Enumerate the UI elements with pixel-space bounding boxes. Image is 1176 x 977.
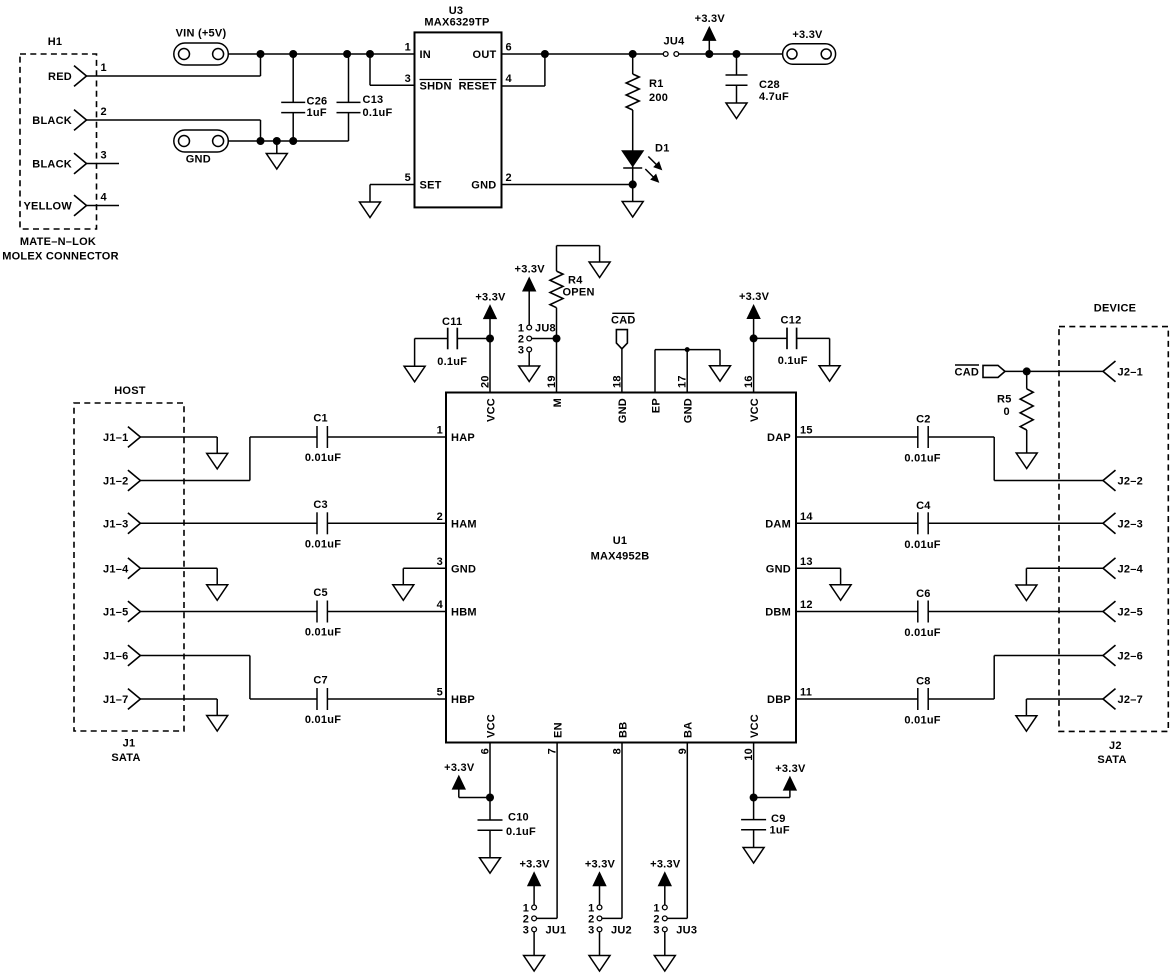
wire SHDN link bbox=[369, 54, 371, 85]
svg-text:SHDN: SHDN bbox=[420, 81, 452, 93]
wire H1 pin2 to GND rail bbox=[87, 119, 261, 121]
svg-text:C6: C6 bbox=[916, 588, 931, 600]
wire VCC6 to +3.3V arrow bbox=[459, 797, 490, 799]
svg-text:0.01uF: 0.01uF bbox=[904, 539, 940, 551]
connector J2 dashed outline bbox=[1059, 327, 1168, 732]
svg-text:17: 17 bbox=[677, 375, 689, 388]
svg-text:H1: H1 bbox=[48, 36, 63, 48]
wire EP net bbox=[654, 350, 656, 393]
capacitor C9 1uF bbox=[741, 819, 766, 821]
svg-text:C1: C1 bbox=[313, 413, 328, 425]
jumper JU3 bbox=[662, 905, 667, 910]
resistor R1 200 bbox=[632, 54, 634, 74]
wire EP to ground bbox=[719, 350, 721, 366]
svg-text:1uF: 1uF bbox=[307, 107, 327, 119]
svg-text:12: 12 bbox=[800, 599, 813, 611]
ground JU1 bbox=[524, 956, 545, 972]
wire VCC pin20 bbox=[489, 339, 491, 393]
node +5V junction 1 bbox=[257, 50, 265, 58]
wire DBP link to J2-6 bbox=[928, 698, 994, 700]
connector J1 dashed outline bbox=[74, 403, 184, 731]
wire U1 GND3 to ground bbox=[403, 567, 446, 569]
svg-text:14: 14 bbox=[800, 511, 813, 523]
svg-text:4: 4 bbox=[101, 192, 108, 204]
wire JU2 pin wire bbox=[621, 743, 623, 919]
svg-text:J1–2: J1–2 bbox=[103, 476, 128, 488]
wire H1 pin1 to +5V rail bbox=[87, 75, 261, 77]
wire RESET link bbox=[544, 54, 546, 86]
wire JU3 pin1 to +3.3V bbox=[664, 885, 666, 905]
wire VCC pin6 bbox=[489, 743, 491, 821]
svg-text:+3.3V: +3.3V bbox=[775, 763, 806, 775]
svg-text:SET: SET bbox=[420, 180, 442, 192]
H1 pin 2 BLACK bbox=[74, 110, 87, 131]
svg-text:+3.3V: +3.3V bbox=[739, 291, 770, 303]
svg-text:GND: GND bbox=[766, 564, 791, 576]
J1 pin J1-2 bbox=[128, 470, 140, 491]
wire H1 pin4 stub bbox=[87, 205, 120, 207]
capacitor C10 0.1uF bbox=[478, 819, 503, 821]
capacitor C8 0.01uF bbox=[917, 688, 919, 710]
wire HAP row right bbox=[327, 436, 446, 438]
wire J1-6 link to HBP row bbox=[140, 655, 250, 657]
power +3.3V at JU1 bbox=[528, 873, 540, 886]
svg-text:0: 0 bbox=[1004, 406, 1010, 418]
svg-text:EP: EP bbox=[650, 398, 662, 413]
capacitor C11 0.1uF bbox=[415, 338, 448, 340]
svg-text:C3: C3 bbox=[313, 499, 328, 511]
svg-text:C12: C12 bbox=[781, 314, 802, 326]
wire JU8 pin2 to M bbox=[532, 338, 557, 340]
node VCC16 junction bbox=[750, 334, 758, 342]
capacitor C4 0.01uF bbox=[917, 512, 919, 534]
ground C10 bbox=[480, 858, 501, 874]
connector H1 dashed outline bbox=[20, 54, 97, 229]
J1 pin J1-1 bbox=[128, 427, 140, 448]
node +3.3V rail junction A bbox=[705, 50, 713, 58]
svg-text:2: 2 bbox=[437, 511, 443, 523]
svg-text:0.1uF: 0.1uF bbox=[778, 355, 808, 367]
ground U1 GND13 bbox=[830, 585, 851, 601]
wire JU8 pin3 to ground bbox=[528, 352, 530, 366]
svg-text:13: 13 bbox=[800, 556, 813, 568]
wire M pin19 bbox=[556, 308, 558, 393]
svg-text:+3.3V: +3.3V bbox=[585, 859, 616, 871]
svg-text:J2–4: J2–4 bbox=[1118, 563, 1144, 575]
svg-text:J2–2: J2–2 bbox=[1118, 476, 1143, 488]
svg-text:HAP: HAP bbox=[451, 432, 475, 444]
svg-text:J2–3: J2–3 bbox=[1118, 518, 1143, 530]
svg-text:MAX6329TP: MAX6329TP bbox=[424, 17, 489, 29]
wire CAD to pin18 bbox=[621, 349, 623, 393]
svg-text:J2–7: J2–7 bbox=[1118, 694, 1143, 706]
svg-text:2: 2 bbox=[101, 106, 107, 118]
svg-text:JU2: JU2 bbox=[611, 924, 632, 936]
svg-text:JU1: JU1 bbox=[546, 924, 567, 936]
svg-text:1: 1 bbox=[437, 425, 443, 437]
power +3.3V at VCC6 bbox=[453, 776, 465, 789]
test point VIN (+5V) bbox=[174, 43, 229, 65]
op-amp U3 MAX6329TP body bbox=[415, 32, 502, 207]
capacitor C28 4.7uF bbox=[736, 54, 738, 75]
ground J2-4 bbox=[1016, 585, 1037, 601]
test point +3.3V bbox=[783, 44, 836, 65]
svg-text:5: 5 bbox=[405, 172, 411, 184]
svg-text:DBP: DBP bbox=[767, 694, 791, 706]
wire DAP row left bbox=[796, 436, 918, 438]
svg-text:HOST: HOST bbox=[114, 385, 146, 397]
wire JU3 pin wire bbox=[686, 743, 688, 919]
capacitor C26 bbox=[292, 54, 294, 102]
test point GND bbox=[174, 130, 229, 152]
svg-text:VCC: VCC bbox=[749, 398, 761, 422]
svg-text:HAM: HAM bbox=[451, 519, 477, 531]
svg-text:6: 6 bbox=[506, 42, 512, 54]
power +3.3V at JU2 bbox=[594, 873, 606, 886]
wire JU8 pin1 to +3.3V bbox=[528, 290, 530, 325]
svg-text:VCC: VCC bbox=[749, 714, 761, 738]
svg-text:5: 5 bbox=[437, 687, 443, 699]
svg-text:R5: R5 bbox=[997, 394, 1012, 406]
svg-text:3: 3 bbox=[653, 924, 659, 936]
svg-text:CAD: CAD bbox=[955, 366, 980, 378]
ground GND bus bbox=[276, 141, 278, 154]
svg-text:0.1uF: 0.1uF bbox=[506, 826, 536, 838]
ground J2-7 bbox=[1016, 716, 1037, 732]
ground JU2 bbox=[589, 956, 610, 972]
svg-text:+3.3V: +3.3V bbox=[519, 859, 550, 871]
svg-text:+3.3V: +3.3V bbox=[475, 291, 506, 303]
svg-text:C26: C26 bbox=[307, 96, 328, 108]
svg-text:3: 3 bbox=[101, 150, 107, 162]
jumper JU2 bbox=[597, 905, 602, 910]
svg-text:+3.3V: +3.3V bbox=[444, 762, 475, 774]
svg-text:18: 18 bbox=[611, 375, 623, 388]
wire JU2 pin3 to ground bbox=[599, 932, 601, 956]
J2 pin J2-6 bbox=[1103, 645, 1116, 666]
svg-text:GND: GND bbox=[186, 154, 211, 166]
wire HAM row left bbox=[140, 522, 317, 524]
LED D1 bbox=[623, 151, 643, 166]
node U3 GND junction bbox=[629, 180, 637, 188]
svg-text:3: 3 bbox=[588, 924, 594, 936]
J2 pin J2-5 bbox=[1103, 601, 1116, 622]
resistor R5 0 bbox=[1026, 371, 1028, 388]
svg-text:C4: C4 bbox=[916, 500, 931, 512]
svg-text:R1: R1 bbox=[649, 78, 664, 90]
wire HBP row right bbox=[327, 698, 446, 700]
svg-text:+3.3V: +3.3V bbox=[515, 264, 546, 276]
svg-text:D1: D1 bbox=[655, 143, 670, 155]
node GND junction 2 bbox=[273, 137, 281, 145]
svg-text:JU8: JU8 bbox=[535, 323, 556, 335]
node OUT junction B bbox=[629, 50, 637, 58]
svg-text:20: 20 bbox=[480, 375, 492, 388]
wire J1-2 link to HAP row bbox=[140, 480, 250, 482]
svg-text:BB: BB bbox=[617, 722, 629, 738]
svg-text:CAD: CAD bbox=[611, 314, 636, 326]
signal tag CAD right bbox=[983, 365, 1005, 377]
ground R5 bbox=[1016, 453, 1037, 469]
wire DAP link to J2-2 bbox=[928, 436, 994, 438]
svg-text:J1–3: J1–3 bbox=[103, 518, 128, 530]
ground U1 GND3 bbox=[393, 585, 414, 601]
svg-text:0.01uF: 0.01uF bbox=[305, 538, 341, 550]
wire HAM row right bbox=[327, 522, 446, 524]
svg-text:BA: BA bbox=[683, 722, 695, 738]
svg-text:0.01uF: 0.01uF bbox=[305, 627, 341, 639]
svg-text:BLACK: BLACK bbox=[32, 115, 72, 127]
svg-text:YELLOW: YELLOW bbox=[23, 201, 72, 213]
H1 pin 4 YELLOW bbox=[74, 195, 87, 216]
node M junction bbox=[553, 335, 561, 343]
svg-text:3: 3 bbox=[518, 344, 524, 356]
power +3.3V at JU8 bbox=[523, 278, 535, 291]
svg-text:J1–7: J1–7 bbox=[103, 694, 128, 706]
wire JU4 to +3.3V rail bbox=[679, 53, 783, 55]
svg-text:0.1uF: 0.1uF bbox=[363, 107, 393, 119]
J1 pin J1-6 bbox=[128, 645, 140, 666]
wire J1-7 to ground bbox=[140, 698, 217, 700]
wire +5V bus bbox=[228, 53, 415, 55]
node VCC6 junction bbox=[486, 794, 494, 802]
node +5V junction 2 bbox=[289, 50, 297, 58]
wire VCC pin10 bbox=[753, 743, 755, 820]
ground SET bbox=[360, 202, 381, 218]
wire H1 pin3 stub bbox=[87, 163, 120, 165]
svg-text:VIN (+5V): VIN (+5V) bbox=[176, 27, 227, 39]
wire R4 top to ground bbox=[557, 245, 600, 247]
capacitor C12 0.1uF bbox=[754, 337, 787, 339]
svg-text:2: 2 bbox=[506, 172, 512, 184]
svg-text:4.7uF: 4.7uF bbox=[759, 91, 789, 103]
wire DBM row left bbox=[796, 611, 918, 613]
wire HAP row left bbox=[250, 436, 317, 438]
svg-text:0.01uF: 0.01uF bbox=[904, 627, 940, 639]
svg-text:VCC: VCC bbox=[485, 714, 497, 738]
J1 pin J1-7 bbox=[128, 689, 140, 710]
svg-text:J1: J1 bbox=[123, 738, 136, 750]
power +3.3V at VCC20 bbox=[484, 306, 496, 319]
wire U3 GND net bbox=[502, 184, 633, 186]
ground J1-4 bbox=[207, 585, 228, 601]
svg-text:HBM: HBM bbox=[451, 607, 477, 619]
svg-text:0.01uF: 0.01uF bbox=[904, 715, 940, 727]
svg-text:DAM: DAM bbox=[765, 519, 791, 531]
svg-text:19: 19 bbox=[546, 375, 558, 388]
power +3.3V at JU4 bbox=[703, 28, 715, 40]
svg-text:1: 1 bbox=[101, 62, 107, 74]
wire JU1 pin wire bbox=[556, 743, 558, 919]
H1 pin 1 RED bbox=[74, 66, 87, 87]
wire OUT net bbox=[502, 53, 664, 55]
wire JU1 pin3 to ground bbox=[533, 932, 535, 956]
ground J1-1 bbox=[207, 453, 228, 469]
wire J2-7 to ground bbox=[1026, 698, 1103, 700]
jumper JU4 bbox=[663, 52, 668, 57]
svg-text:SATA: SATA bbox=[1097, 754, 1126, 766]
wire DAM row left bbox=[796, 522, 918, 524]
wire DBM row right bbox=[928, 611, 1103, 613]
svg-text:HBP: HBP bbox=[451, 694, 475, 706]
svg-text:200: 200 bbox=[649, 92, 668, 104]
svg-text:IN: IN bbox=[420, 49, 432, 61]
ground EP bbox=[710, 366, 731, 382]
svg-text:R4: R4 bbox=[568, 275, 583, 287]
J2 pin J2-4 bbox=[1103, 558, 1116, 579]
capacitor C2 0.01uF bbox=[917, 426, 919, 448]
IC U1 MAX4952B body bbox=[446, 393, 796, 743]
svg-text:J2: J2 bbox=[1109, 740, 1122, 752]
wire C12 to ground bbox=[829, 338, 831, 365]
J1 pin J1-4 bbox=[128, 558, 140, 579]
wire DBP row left bbox=[796, 698, 918, 700]
node EP junction bbox=[685, 347, 690, 352]
svg-text:EN: EN bbox=[552, 722, 564, 738]
power +3.3V at JU3 bbox=[659, 873, 671, 886]
svg-text:MATE–N–LOK: MATE–N–LOK bbox=[20, 236, 96, 248]
ground JU3 bbox=[654, 956, 675, 972]
svg-text:16: 16 bbox=[743, 375, 755, 388]
node +3.3V rail junction B bbox=[733, 50, 741, 58]
wire HBP row left bbox=[250, 698, 317, 700]
svg-text:MAX4952B: MAX4952B bbox=[591, 551, 650, 563]
node CAD junction bbox=[1023, 367, 1031, 375]
svg-text:M: M bbox=[552, 398, 564, 407]
svg-text:J2–1: J2–1 bbox=[1118, 366, 1143, 378]
power +3.3V at VCC10 bbox=[784, 777, 796, 790]
capacitor C7 0.01uF bbox=[316, 688, 318, 710]
node VCC10 junction bbox=[750, 794, 758, 802]
jumper JU1 bbox=[532, 905, 537, 910]
wire JU2 pin1 to +3.3V bbox=[599, 885, 601, 905]
wire HBM row left bbox=[140, 611, 317, 613]
svg-text:C13: C13 bbox=[363, 94, 384, 106]
svg-text:U1: U1 bbox=[613, 535, 628, 547]
power +3.3V at VCC16 bbox=[748, 306, 760, 319]
wire CAD to J2-1 bbox=[1005, 370, 1103, 372]
svg-text:1: 1 bbox=[405, 42, 411, 54]
J1 pin J1-5 bbox=[128, 601, 140, 622]
jumper JU8 bbox=[527, 325, 532, 330]
svg-text:JU4: JU4 bbox=[664, 36, 686, 48]
svg-text:0.1uF: 0.1uF bbox=[437, 356, 467, 368]
wire VCC pin16 bbox=[753, 338, 755, 392]
J1 pin J1-3 bbox=[128, 513, 140, 534]
J2 pin J2-1 bbox=[1103, 361, 1116, 382]
svg-text:J2–6: J2–6 bbox=[1118, 651, 1143, 663]
svg-text:4: 4 bbox=[437, 599, 444, 611]
wire HBM row right bbox=[327, 611, 446, 613]
svg-text:C8: C8 bbox=[916, 676, 931, 688]
svg-text:0.01uF: 0.01uF bbox=[904, 453, 940, 465]
svg-text:U3: U3 bbox=[449, 5, 464, 17]
svg-text:GND: GND bbox=[617, 398, 629, 423]
wire GND bus bbox=[228, 140, 349, 142]
svg-text:4: 4 bbox=[506, 73, 513, 85]
wire GND pin17 bbox=[686, 350, 688, 393]
capacitor C6 0.01uF bbox=[917, 601, 919, 623]
ground JU8 bbox=[519, 366, 540, 382]
capacitor C5 0.01uF bbox=[316, 601, 318, 623]
svg-text:GND: GND bbox=[471, 180, 496, 192]
svg-text:C11: C11 bbox=[442, 316, 462, 328]
resistor R4 OPEN bbox=[550, 271, 563, 308]
capacitor C3 0.01uF bbox=[316, 512, 318, 534]
J2 pin J2-3 bbox=[1103, 513, 1116, 534]
ground C9 bbox=[743, 848, 764, 864]
ground R4 bbox=[589, 262, 610, 278]
capacitor C1 0.01uF bbox=[316, 426, 318, 448]
svg-text:OPEN: OPEN bbox=[563, 287, 595, 299]
capacitor C13 bbox=[348, 54, 350, 102]
svg-text:JU3: JU3 bbox=[676, 924, 697, 936]
svg-text:DBM: DBM bbox=[765, 607, 791, 619]
svg-text:BLACK: BLACK bbox=[32, 159, 72, 171]
wire J1-4 to ground bbox=[140, 567, 217, 569]
ground C11 bbox=[414, 339, 416, 367]
node GND junction 1 bbox=[257, 137, 265, 145]
svg-text:SATA: SATA bbox=[111, 752, 140, 764]
svg-text:J1–1: J1–1 bbox=[103, 432, 128, 444]
wire U1 GND13 to ground bbox=[796, 567, 841, 569]
svg-text:15: 15 bbox=[800, 425, 813, 437]
wire DAM row right bbox=[928, 522, 1103, 524]
svg-text:+3.3V: +3.3V bbox=[792, 29, 823, 41]
svg-text:+3.3V: +3.3V bbox=[650, 859, 681, 871]
LED D1 light arrows bbox=[648, 157, 656, 165]
ground U3 GND bbox=[632, 185, 634, 202]
wire J1-1 to ground bbox=[140, 436, 217, 438]
wire VCC10 to +3.3V arrow bbox=[754, 797, 790, 799]
svg-text:1uF: 1uF bbox=[770, 825, 790, 837]
svg-text:RED: RED bbox=[48, 71, 72, 83]
svg-text:RESET: RESET bbox=[459, 81, 497, 93]
node OUT junction A bbox=[541, 50, 549, 58]
svg-text:GND: GND bbox=[451, 564, 476, 576]
svg-text:C28: C28 bbox=[759, 79, 780, 91]
svg-text:J1–4: J1–4 bbox=[103, 563, 129, 575]
node +5V junction 4 bbox=[366, 50, 374, 58]
svg-text:VCC: VCC bbox=[485, 398, 497, 422]
wire JU3 pin3 to ground bbox=[664, 932, 666, 956]
ground C28 bbox=[726, 103, 747, 119]
node +5V junction 3 bbox=[343, 50, 351, 58]
svg-text:11: 11 bbox=[800, 687, 812, 699]
svg-text:C9: C9 bbox=[771, 813, 786, 825]
svg-text:C10: C10 bbox=[508, 812, 529, 824]
svg-text:C2: C2 bbox=[916, 414, 931, 426]
svg-text:3: 3 bbox=[405, 73, 411, 85]
svg-text:DEVICE: DEVICE bbox=[1094, 303, 1136, 315]
svg-text:3: 3 bbox=[437, 556, 443, 568]
svg-text:MOLEX CONNECTOR: MOLEX CONNECTOR bbox=[2, 251, 119, 263]
svg-text:0.01uF: 0.01uF bbox=[305, 714, 341, 726]
svg-text:OUT: OUT bbox=[473, 49, 497, 61]
svg-text:J2–5: J2–5 bbox=[1118, 607, 1143, 619]
svg-text:C5: C5 bbox=[313, 587, 328, 599]
svg-text:C7: C7 bbox=[313, 675, 328, 687]
node GND junction 3 bbox=[289, 137, 297, 145]
node VCC20 junction bbox=[486, 335, 494, 343]
J2 pin J2-7 bbox=[1103, 689, 1116, 710]
svg-text:GND: GND bbox=[683, 398, 695, 423]
H1 pin 3 BLACK bbox=[74, 153, 87, 174]
ground C12 bbox=[819, 366, 840, 382]
svg-text:+3.3V: +3.3V bbox=[695, 13, 726, 25]
svg-text:J1–6: J1–6 bbox=[103, 651, 128, 663]
wire J2-4 to ground bbox=[1026, 567, 1103, 569]
